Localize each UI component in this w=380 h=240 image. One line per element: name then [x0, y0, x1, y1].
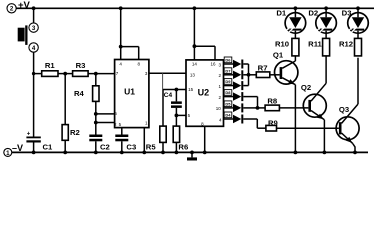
wire R9 to Q3 base — [277, 127, 339, 129]
resistor R5 — [146, 126, 166, 151]
transistor Q1 — [273, 50, 298, 152]
bus rows 4-5 — [256, 97, 266, 110]
terminal 1 — [4, 148, 12, 156]
power rail +V — [16, 7, 374, 9]
svg-text:D6: D6 — [225, 58, 231, 63]
U1 pins 4-8 bracket to rail — [119, 6, 139, 59]
resistor R3 — [73, 61, 89, 76]
terminal 4 — [29, 43, 38, 52]
node B — [63, 72, 67, 76]
resistor R11 — [308, 38, 329, 56]
svg-text:R5: R5 — [146, 142, 157, 151]
wire down to R5 — [162, 90, 164, 127]
wire C1 to rail — [33, 143, 35, 153]
IC U2 (4017 counter) — [186, 60, 224, 127]
LED D1 — [276, 8, 305, 33]
node Q2 emitter-rail — [323, 151, 327, 155]
capacitor C4 — [164, 92, 182, 108]
wire U1 pin5 to C3 — [121, 128, 123, 135]
node R2-rail — [63, 151, 67, 155]
resistor R1 — [42, 61, 58, 76]
wire clock node down — [162, 73, 164, 89]
svg-text:D1: D1 — [276, 8, 287, 17]
svg-text:R10: R10 — [275, 39, 289, 48]
node pin2 — [94, 121, 98, 125]
pushbutton S1 — [18, 25, 28, 45]
svg-text:R7: R7 — [258, 63, 268, 72]
node D2-rail — [324, 6, 328, 10]
wire U1 pin1 to rail — [143, 128, 145, 153]
capacitor C1 — [26, 132, 53, 152]
wire D1 to R10 — [294, 31, 296, 39]
node C4-R6 junction — [175, 114, 179, 118]
node R5-rail — [161, 151, 165, 155]
wire U1 pin3 to U2 pin13 — [149, 72, 186, 74]
node D3-rail — [356, 6, 360, 10]
op-amp U1 (555 timer) — [114, 60, 149, 128]
node pin6 — [94, 112, 98, 116]
node C4 tap — [175, 88, 179, 92]
svg-text:C3: C3 — [126, 142, 136, 151]
svg-text:15: 15 — [188, 87, 194, 92]
svg-text:U1: U1 — [124, 86, 135, 96]
svg-text:R4: R4 — [74, 89, 85, 98]
svg-text:R11: R11 — [308, 39, 322, 48]
wire R4 to C2 — [95, 101, 97, 134]
wire D3 to R12 — [357, 31, 359, 39]
wire C2 to rail — [95, 141, 97, 152]
diode D9 row3 — [224, 79, 249, 91]
terminal 3 — [29, 23, 38, 32]
svg-text:D5: D5 — [225, 101, 231, 106]
wire to U1 pin 6 — [96, 113, 115, 115]
diode D4 row6 — [224, 112, 258, 124]
node Q1 emitter-rail — [294, 151, 298, 155]
svg-text:Q2: Q2 — [301, 83, 311, 92]
terminal 2 — [7, 4, 16, 13]
svg-text:D8: D8 — [225, 90, 231, 95]
svg-text:D9: D9 — [225, 79, 231, 84]
capacitor C3 — [115, 135, 136, 152]
svg-text:Q3: Q3 — [339, 105, 349, 114]
wire node C to R4 — [95, 74, 97, 86]
capacitor C2 — [89, 135, 110, 152]
bus rows 1-3 — [247, 64, 257, 86]
resistor R7 — [256, 63, 270, 77]
wire C3 to rail — [121, 141, 123, 152]
diode D6 row1 — [224, 57, 249, 69]
wire R1 to node B — [58, 73, 73, 75]
wire terminal 4 to node A — [33, 52, 35, 73]
svg-text:4: 4 — [32, 45, 36, 52]
svg-text:14: 14 — [192, 61, 198, 66]
svg-text:1: 1 — [6, 150, 10, 157]
svg-text:U2: U2 — [198, 88, 210, 98]
svg-text:R3: R3 — [76, 61, 86, 70]
svg-text:R8: R8 — [267, 97, 278, 106]
svg-text:D3: D3 — [342, 8, 352, 17]
node C — [94, 72, 98, 76]
svg-text:+V: +V — [18, 0, 31, 11]
svg-text:13: 13 — [190, 72, 196, 77]
wire R3 to U1 pin 7 — [88, 73, 115, 75]
resistor R8 — [265, 97, 279, 111]
svg-text:D4: D4 — [225, 113, 231, 118]
wire node to C4 — [175, 90, 177, 102]
LED D2 — [308, 8, 336, 33]
svg-text:–V: –V — [12, 143, 23, 153]
node A — [32, 72, 35, 75]
resistor R10 — [275, 38, 299, 56]
wire R6 to rail — [175, 142, 177, 152]
resistor R4 — [74, 86, 99, 102]
resistor R6 — [173, 126, 188, 151]
svg-text:C4: C4 — [164, 92, 173, 99]
bottom rail -V — [12, 151, 368, 153]
svg-text:10: 10 — [216, 106, 222, 111]
wire rail to terminal 3 — [33, 8, 35, 23]
node C1-rail — [32, 151, 36, 155]
svg-text:R9: R9 — [268, 119, 278, 128]
svg-text:D2: D2 — [308, 8, 318, 17]
node C3-rail — [120, 151, 124, 155]
wire U2 pin8 to rail — [204, 126, 206, 152]
wire R5 to rail — [162, 142, 164, 152]
diode D7 row2 — [224, 68, 249, 80]
svg-text:R6: R6 — [178, 142, 188, 151]
wire to U2 pin15 — [163, 89, 186, 91]
svg-text:D7: D7 — [225, 68, 231, 73]
svg-text:2: 2 — [10, 6, 14, 13]
label -V — [12, 143, 23, 153]
svg-text:3: 3 — [32, 25, 36, 32]
LED D3 — [342, 8, 369, 33]
svg-text:R12: R12 — [339, 39, 353, 48]
label +V — [18, 0, 31, 11]
wire node A to C1 — [33, 74, 35, 137]
wire to U2 pin 5 — [176, 114, 186, 116]
node rail-S1 junction — [32, 6, 36, 10]
transistor Q2 — [301, 56, 326, 152]
node D1-rail — [294, 6, 298, 10]
node R6-rail — [175, 151, 179, 155]
diode D8 row4 — [224, 90, 258, 102]
svg-text:16: 16 — [210, 61, 216, 66]
resistor R9 — [266, 119, 278, 131]
svg-text:R1: R1 — [45, 61, 56, 70]
U2 pins 14-10 bracket to rail — [193, 6, 216, 60]
wire R7 to Q1 base — [270, 74, 280, 76]
wire node A to R1 — [34, 73, 42, 75]
wire R8 to Q2 base — [279, 107, 308, 109]
wire node B to R2 — [64, 74, 66, 125]
resistor R12 — [339, 38, 362, 56]
wire R2 to rail — [64, 140, 66, 152]
svg-text:C2: C2 — [100, 142, 110, 151]
svg-text:R2: R2 — [70, 128, 80, 137]
row6 jog — [257, 119, 266, 128]
node C2-rail — [94, 151, 98, 155]
node pin8-rail — [203, 151, 207, 155]
diode D5 row5 — [224, 101, 258, 113]
svg-text:C1: C1 — [43, 142, 54, 151]
node pin1-rail — [142, 151, 146, 155]
wire C4 to R6 — [175, 108, 177, 126]
transistor Q3 — [336, 58, 359, 153]
node Q3 emitter-rail — [353, 151, 357, 155]
ground — [187, 151, 197, 161]
wire D2 to R11 — [325, 31, 327, 39]
wire to U1 pin 2 — [96, 122, 115, 124]
resistor R2 — [62, 125, 80, 141]
svg-text:Q1: Q1 — [273, 50, 284, 59]
